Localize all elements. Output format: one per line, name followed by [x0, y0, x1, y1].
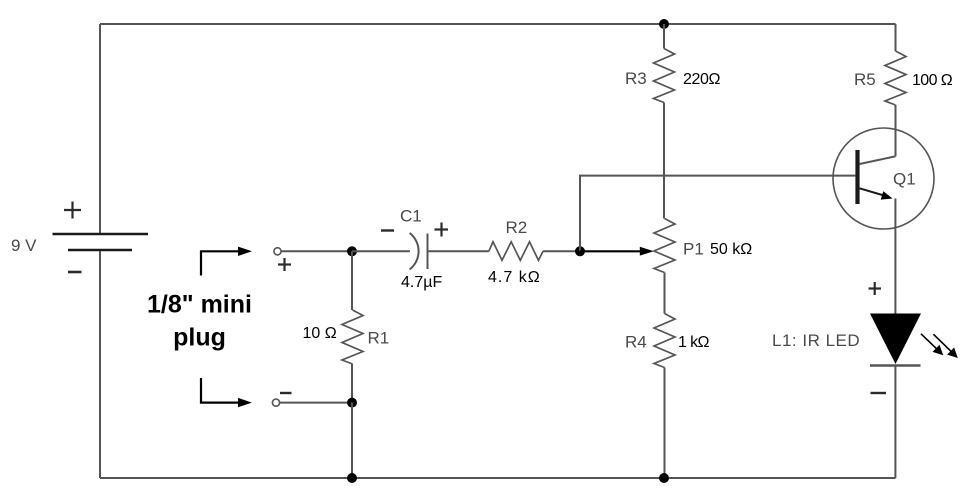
label - LED: [871, 392, 887, 394]
terminal + open circle: [274, 248, 281, 255]
label + LED: [869, 282, 882, 295]
label 1 kOhm: [678, 334, 710, 351]
svg-text:4.7µF: 4.7µF: [401, 274, 442, 291]
node C (junction input-/R1): [347, 398, 357, 408]
svg-text:R3: R3: [625, 69, 647, 88]
wire top rail to R5: [895, 24, 897, 51]
resistor R2: [489, 242, 543, 260]
label R1: [368, 329, 390, 348]
node B (junction wiper/base): [575, 246, 585, 256]
resistor R4: [654, 314, 675, 368]
label 50 kOhm: [710, 241, 752, 258]
wire input + to node A: [281, 250, 352, 252]
wire top rail: [100, 23, 896, 25]
wire left vertical battery -: [99, 251, 101, 478]
wire LED to bottom rail: [894, 366, 896, 478]
wire node B to Q1 base: [580, 176, 855, 252]
svg-text:R4: R4: [625, 333, 647, 352]
svg-text:C1: C1: [400, 207, 422, 226]
potentiometer P1: [654, 219, 675, 273]
resistor R1: [342, 310, 363, 364]
label R2: [506, 218, 528, 237]
label 4.7 kOhm: [488, 269, 541, 286]
svg-text:P1: P1: [683, 240, 704, 259]
label 220 Ohm: [683, 71, 720, 88]
svg-text:Q1: Q1: [893, 170, 916, 189]
wire node C to bottom rail: [351, 403, 353, 478]
svg-text:1/8" mini: 1/8" mini: [147, 291, 252, 319]
label 9 V: [11, 236, 37, 255]
label 100 Ohm: [912, 72, 953, 89]
svg-text:4.7 kΩ: 4.7 kΩ: [488, 269, 541, 286]
label - input: [280, 392, 292, 394]
label 1/8" mini plug: [147, 291, 252, 352]
wire bottom rail: [100, 477, 896, 479]
wire top node to R3: [663, 24, 665, 49]
wire input - to node C: [280, 402, 353, 404]
wire R3 to P1: [663, 103, 665, 219]
svg-text:1 kΩ: 1 kΩ: [678, 334, 710, 351]
node A (junction input+/R1): [347, 246, 357, 256]
label C1: [400, 207, 422, 226]
terminal - open circle: [272, 399, 279, 406]
node bottom rail right: [659, 473, 669, 483]
svg-text:220Ω: 220Ω: [683, 71, 720, 88]
wire P1 to R4: [664, 273, 666, 314]
wire left vertical battery +: [99, 24, 101, 233]
arrow to + input terminal: [201, 247, 252, 276]
label P1: [683, 240, 704, 259]
wire node A to C1: [352, 250, 410, 252]
svg-text:R5: R5: [854, 70, 876, 89]
wire R2 to node B: [543, 250, 580, 252]
LED emission arrow 1: [921, 334, 943, 355]
svg-text:L1: IR LED: L1: IR LED: [772, 331, 860, 350]
capacitor C1 4.7uF: [410, 233, 428, 270]
label R5: [854, 70, 876, 89]
arrow node B to P1 wiper: [580, 247, 654, 256]
label R4: [625, 333, 647, 352]
battery BT1 9V: [53, 202, 149, 273]
svg-text:9 V: 9 V: [11, 236, 37, 255]
wire R5 to Q1 collector: [895, 105, 897, 156]
LED emission arrow 2: [933, 334, 957, 358]
LED L1 diode: [870, 314, 921, 366]
label + input: [278, 258, 291, 271]
svg-text:50 kΩ: 50 kΩ: [710, 241, 752, 258]
label 10 Ohm: [303, 325, 337, 342]
wire Q1 emitter to LED: [894, 199, 896, 314]
svg-text:R2: R2: [506, 218, 528, 237]
svg-text:10 Ω: 10 Ω: [303, 325, 337, 342]
resistor R5: [885, 51, 906, 105]
svg-text:100 Ω: 100 Ω: [912, 72, 953, 89]
arrow to - input terminal: [201, 378, 252, 407]
wire R4 to bottom rail: [664, 368, 666, 479]
label R3: [625, 69, 647, 88]
node bottom rail left: [347, 473, 357, 483]
label 4.7uF: [401, 274, 442, 291]
label C1 minus: [381, 229, 394, 231]
wire node A to R1: [351, 251, 353, 310]
transistor Q1: [833, 128, 934, 229]
resistor R3: [654, 49, 675, 103]
label Q1: [893, 170, 916, 189]
wire R1 to node C: [351, 364, 353, 403]
svg-text:R1: R1: [368, 329, 390, 348]
label L1: IR LED: [772, 331, 860, 350]
wire C1 to R2: [428, 250, 489, 252]
label C1 plus: [435, 223, 449, 237]
svg-text:plug: plug: [173, 324, 226, 352]
node top junction (R3/R5): [659, 19, 669, 29]
